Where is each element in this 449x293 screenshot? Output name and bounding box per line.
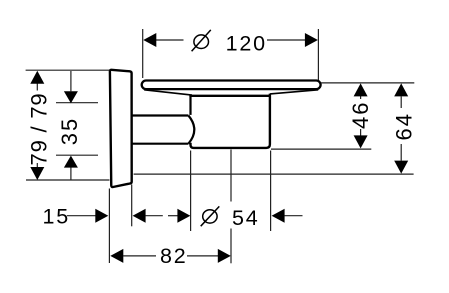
extension line 46 bottom [271, 148, 371, 150]
arrowhead 79/79 down [30, 167, 44, 180]
arrowhead 46 up [354, 83, 368, 96]
svg-text:64: 64 [392, 112, 417, 140]
dim 79/79 top stem [36, 84, 38, 91]
extension line dia120 left [142, 29, 144, 78]
extension line 35 bottom [56, 154, 98, 156]
centerline lower [230, 229, 232, 264]
soap dish plate (rounded bar) [142, 81, 321, 90]
extension line 46/64 top [321, 82, 414, 84]
centerline (82 right boundary) upper [230, 150, 232, 202]
arrowhead dia120 left [143, 33, 156, 47]
arm end cap arc [188, 116, 194, 144]
svg-text:79 / 79: 79 / 79 [26, 93, 51, 166]
arrowhead 15 right (outside, pointing left) [133, 209, 146, 223]
cup outline lower [191, 94, 270, 148]
arrowhead 54 right (outside, pointing left) [272, 209, 285, 223]
arrowhead 82 right [218, 249, 231, 263]
arrowhead 64 up [394, 83, 408, 96]
dim 35 top stem [70, 71, 72, 91]
extension line 79/79 bottom [26, 179, 110, 181]
extension line wall-left (shared 15/82) [108, 189, 110, 264]
dim 35 bottom stem [70, 167, 72, 180]
arrowhead 35 up (outside) [64, 156, 78, 168]
svg-text:35: 35 [57, 117, 82, 145]
diameter symbol (54) [203, 210, 217, 223]
arrowhead 82 left [110, 249, 123, 263]
arrowhead 64 down [394, 161, 408, 174]
extension line dia120 right [317, 29, 319, 80]
dish underside slant left [144, 90, 192, 95]
dim line dia120 right stem [267, 39, 305, 41]
arrowhead 79/79 up [30, 71, 44, 84]
dim 54 left stem [168, 215, 178, 217]
arrowhead dia120 right [305, 33, 318, 47]
dim 46 bottom stem [360, 129, 362, 136]
svg-text:15: 15 [43, 204, 71, 228]
dim 15 right stem [145, 215, 162, 217]
dish underside slant right [270, 90, 318, 94]
svg-text:46: 46 [348, 101, 373, 129]
diameter symbol (120) [194, 35, 209, 49]
dim 54 right stem [284, 215, 302, 217]
arrowhead 54 left (outside, pointing right) [177, 209, 190, 223]
extension line 64 bottom (long) [134, 173, 414, 175]
dim 82 left stem [123, 255, 156, 257]
extension line 35 top [56, 102, 98, 104]
cup (glass holder) left edge upper [189, 95, 191, 115]
dim line dia120 left stem [156, 39, 184, 41]
dim 46 top stem [360, 96, 362, 99]
extension line cup-left (54) [190, 151, 192, 232]
arrowhead 15 left (outside, pointing right) [95, 209, 108, 223]
svg-text:54: 54 [232, 206, 260, 230]
dim 64 top stem [400, 96, 402, 108]
arm bottom [132, 143, 189, 145]
dim 15 left stem [67, 215, 96, 217]
dim 79/79 bottom stem [36, 163, 38, 167]
svg-text:82: 82 [160, 244, 188, 268]
wall plate (side view of escutcheon) [110, 70, 132, 187]
arm top [132, 114, 189, 116]
cup top rim line [189, 95, 271, 97]
svg-text:120: 120 [226, 31, 267, 55]
dim 64 bottom stem [400, 144, 402, 161]
dim 82 right stem [187, 255, 218, 257]
arrowhead 46 down [354, 135, 368, 148]
extension line 79/79 top [26, 69, 110, 71]
arrowhead 35 down (outside) [64, 91, 78, 103]
extension line cup-right (54) [270, 151, 272, 232]
extension line wall-right (15) [131, 185, 133, 227]
